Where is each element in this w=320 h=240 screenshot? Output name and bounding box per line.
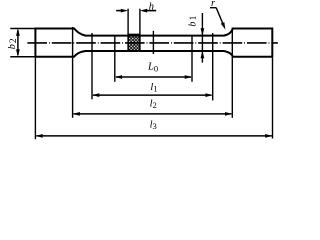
hatched gauge-mark box: [128, 34, 140, 50]
svg-text:L0: L0: [147, 62, 158, 74]
h left arrow pointing right: [121, 9, 128, 13]
b1 arrow down (tip at narrow top edge): [201, 28, 205, 35]
b2 bottom extension line: [10, 56, 35, 58]
svg-text:b1: b1: [187, 14, 199, 26]
svg-text:b2: b2: [7, 37, 19, 49]
L0 arrow left: [115, 75, 122, 79]
svg-text:l2: l2: [150, 98, 157, 110]
l1 arrow right: [205, 93, 212, 97]
h left extension line: [127, 9, 129, 51]
r leader arrowhead: [221, 22, 226, 30]
svg-text:l3: l3: [150, 119, 157, 131]
L0 right extension tick: [191, 35, 193, 82]
L0 arrow right: [185, 75, 192, 79]
l2 right extension line: [231, 28, 233, 118]
L0 dimension line: [116, 76, 191, 78]
l3 right extension line: [272, 58, 274, 139]
b1 dimension line crossing bar: [201, 13, 203, 63]
h right arrow pointing left: [140, 9, 147, 13]
svg-text:h: h: [149, 2, 154, 13]
h right extension line: [139, 9, 141, 51]
l1 right extension line: [212, 33, 214, 100]
l1 dimension line: [93, 94, 212, 96]
b2 arrow up: [16, 29, 20, 36]
l2 dimension line: [74, 113, 232, 115]
specimen bottom outline: [35, 51, 272, 57]
l3 dimension line: [36, 135, 271, 137]
l1 arrow left: [92, 93, 99, 97]
specimen left end: [34, 28, 36, 58]
l3 arrow left: [35, 134, 42, 138]
b2 arrow down: [16, 49, 20, 56]
l2 arrow right: [225, 112, 232, 116]
b2 top extension line: [10, 28, 35, 30]
L0 left extension tick: [114, 35, 116, 82]
l1 left extension line: [91, 33, 93, 99]
r leader diagonal: [216, 8, 223, 26]
specimen top outline: [35, 29, 272, 36]
l3 left extension line: [34, 58, 36, 140]
l2 arrow left: [73, 112, 80, 116]
l2 left extension line: [72, 27, 74, 118]
centre gauge tick: [152, 31, 154, 54]
centre line (dash-dot axis): [27, 42, 278, 44]
l3 arrow right: [265, 134, 272, 138]
b1 arrow up (tip at narrow bottom edge): [201, 51, 205, 58]
h dimension line right tail: [146, 10, 156, 12]
b2 dimension line: [17, 30, 19, 55]
r leader line shelf: [210, 7, 216, 9]
specimen right end: [271, 28, 273, 58]
h dimension line left tail: [116, 10, 122, 12]
svg-text:l1: l1: [150, 82, 157, 94]
